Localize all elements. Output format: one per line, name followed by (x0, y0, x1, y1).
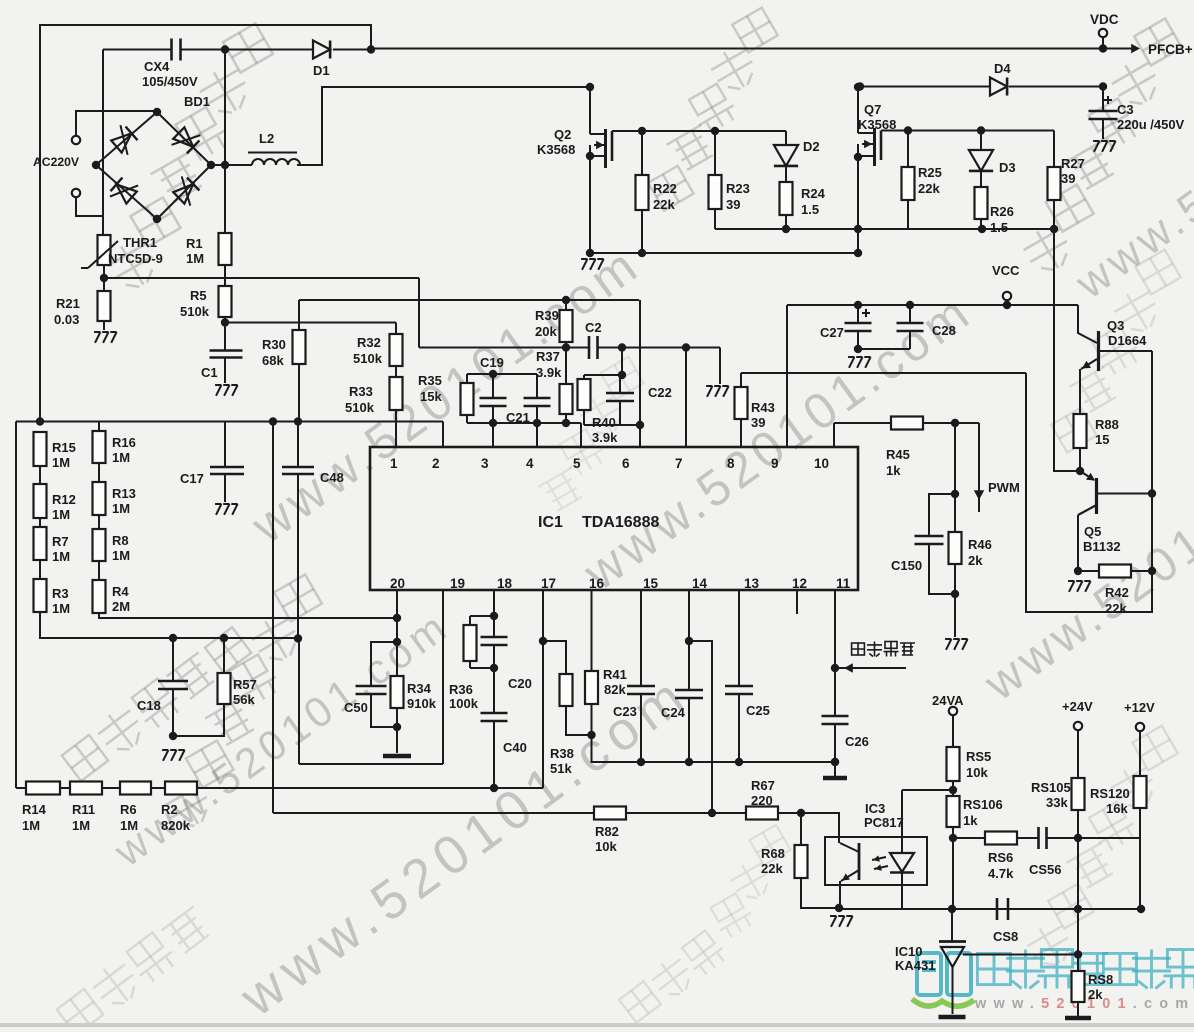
svg-text:2M: 2M (112, 599, 130, 614)
svg-text:IC10: IC10 (895, 944, 922, 959)
svg-text:R46: R46 (968, 537, 992, 552)
svg-text:39: 39 (726, 197, 740, 212)
svg-text:R7: R7 (52, 534, 69, 549)
svg-text:105/450V: 105/450V (142, 74, 198, 89)
svg-text:20k: 20k (535, 324, 557, 339)
svg-text:1k: 1k (963, 813, 978, 828)
svg-text:17: 17 (541, 576, 556, 591)
svg-text:R30: R30 (262, 337, 286, 352)
svg-text:R5: R5 (190, 288, 207, 303)
svg-text:R24: R24 (801, 186, 826, 201)
svg-text:1.5: 1.5 (990, 220, 1008, 235)
svg-text:R25: R25 (918, 165, 942, 180)
svg-text:R15: R15 (52, 440, 76, 455)
svg-text:R42: R42 (1105, 585, 1129, 600)
svg-text:R35: R35 (418, 373, 442, 388)
svg-text:2k: 2k (1088, 987, 1103, 1002)
svg-text:22k: 22k (918, 181, 940, 196)
svg-text:R27: R27 (1061, 156, 1085, 171)
svg-text:D1: D1 (313, 63, 330, 78)
svg-text:10k: 10k (966, 765, 988, 780)
svg-text:1M: 1M (52, 507, 70, 522)
svg-text:82k: 82k (604, 682, 626, 697)
svg-text:CS56: CS56 (1029, 862, 1062, 877)
svg-text:AC220V: AC220V (33, 155, 80, 169)
svg-text:1M: 1M (72, 818, 90, 833)
svg-text:IC1: IC1 (538, 514, 563, 531)
svg-text:R14: R14 (22, 802, 47, 817)
svg-text:R82: R82 (595, 824, 619, 839)
svg-text:15: 15 (1095, 432, 1109, 447)
svg-text:16k: 16k (1106, 801, 1128, 816)
svg-text:C48: C48 (320, 470, 344, 485)
svg-text:1.5: 1.5 (801, 202, 819, 217)
svg-text:R39: R39 (535, 308, 559, 323)
svg-text:20: 20 (390, 576, 405, 591)
svg-text:VDC: VDC (1090, 12, 1119, 27)
svg-text:510k: 510k (345, 400, 375, 415)
svg-text:R67: R67 (751, 778, 775, 793)
svg-text:C25: C25 (746, 703, 770, 718)
svg-text:C40: C40 (503, 740, 527, 755)
svg-text:C27: C27 (820, 325, 844, 340)
svg-text:R22: R22 (653, 181, 677, 196)
svg-text:R26: R26 (990, 204, 1014, 219)
svg-text:R38: R38 (550, 746, 574, 761)
svg-text:C17: C17 (180, 471, 204, 486)
svg-text:RS120: RS120 (1090, 786, 1130, 801)
svg-text:R6: R6 (120, 802, 137, 817)
svg-text:R21: R21 (56, 296, 80, 311)
svg-text:R11: R11 (72, 802, 95, 817)
svg-text:5: 5 (573, 456, 581, 471)
svg-text:Q2: Q2 (554, 127, 571, 142)
svg-text:K3568: K3568 (537, 142, 575, 157)
svg-text:1M: 1M (120, 818, 138, 833)
svg-text:CS8: CS8 (993, 929, 1018, 944)
svg-text:4: 4 (526, 456, 534, 471)
svg-text:3.9k: 3.9k (592, 430, 618, 445)
svg-text:R37: R37 (536, 349, 560, 364)
svg-text:R3: R3 (52, 586, 69, 601)
svg-text:9: 9 (771, 456, 779, 471)
svg-text:13: 13 (744, 576, 760, 591)
svg-text:PC817: PC817 (864, 815, 904, 830)
svg-text:22k: 22k (761, 861, 783, 876)
svg-text:16: 16 (589, 576, 605, 591)
svg-text:+12V: +12V (1124, 700, 1155, 715)
svg-text:100k: 100k (449, 696, 479, 711)
svg-text:8: 8 (727, 456, 735, 471)
svg-text:PWM: PWM (988, 480, 1020, 495)
svg-text:3.9k: 3.9k (536, 365, 562, 380)
svg-text:Q3: Q3 (1107, 318, 1124, 333)
svg-text:R43: R43 (751, 400, 775, 415)
svg-text:C28: C28 (932, 323, 956, 338)
svg-text:1M: 1M (52, 455, 70, 470)
svg-text:3: 3 (481, 456, 489, 471)
svg-text:C150: C150 (891, 558, 922, 573)
svg-text:2k: 2k (968, 553, 983, 568)
svg-text:0.03: 0.03 (54, 312, 79, 327)
svg-text:PFCB+: PFCB+ (1148, 42, 1193, 57)
svg-text:10k: 10k (595, 839, 617, 854)
svg-text:KA431: KA431 (895, 958, 935, 973)
svg-text:220: 220 (751, 793, 773, 808)
svg-text:TDA16888: TDA16888 (582, 514, 659, 531)
svg-text:19: 19 (450, 576, 465, 591)
svg-text:RS8: RS8 (1088, 972, 1113, 987)
svg-text:C24: C24 (661, 705, 686, 720)
svg-text:D2: D2 (803, 139, 820, 154)
svg-text:D1664: D1664 (1108, 333, 1147, 348)
svg-text:10: 10 (814, 456, 829, 471)
svg-text:15k: 15k (420, 389, 442, 404)
svg-text:D4: D4 (994, 61, 1011, 76)
svg-text:IC3: IC3 (865, 801, 885, 816)
svg-text:RS6: RS6 (988, 850, 1013, 865)
svg-text:BD1: BD1 (184, 94, 210, 109)
svg-text:220u /450V: 220u /450V (1117, 117, 1185, 132)
svg-text:C1: C1 (201, 365, 218, 380)
svg-text:1M: 1M (22, 818, 40, 833)
svg-text:1: 1 (390, 456, 398, 471)
svg-text:R68: R68 (761, 846, 785, 861)
svg-text:C3: C3 (1117, 102, 1134, 117)
svg-text:C20: C20 (508, 676, 532, 691)
svg-text:68k: 68k (262, 353, 284, 368)
svg-text:NTC5D-9: NTC5D-9 (108, 251, 163, 266)
svg-text:K3568: K3568 (858, 117, 896, 132)
svg-text:R32: R32 (357, 335, 381, 350)
svg-text:820k: 820k (161, 818, 191, 833)
svg-text:56k: 56k (233, 692, 255, 707)
svg-text:R45: R45 (886, 447, 910, 462)
svg-text:RS105: RS105 (1031, 780, 1071, 795)
svg-text:39: 39 (1061, 171, 1075, 186)
svg-text:RS106: RS106 (963, 797, 1003, 812)
svg-text:Q5: Q5 (1084, 524, 1101, 539)
svg-text:24VA: 24VA (932, 693, 964, 708)
svg-text:B1132: B1132 (1083, 539, 1121, 554)
svg-text:22k: 22k (653, 197, 675, 212)
svg-text:510k: 510k (353, 351, 383, 366)
svg-text:L2: L2 (259, 131, 274, 146)
svg-text:R16: R16 (112, 435, 136, 450)
svg-text:22k: 22k (1105, 601, 1127, 616)
svg-text:11: 11 (836, 576, 851, 591)
svg-text:R4: R4 (112, 584, 129, 599)
svg-text:R13: R13 (112, 486, 136, 501)
svg-text:18: 18 (497, 576, 513, 591)
svg-text:1M: 1M (186, 251, 204, 266)
svg-text:510k: 510k (180, 304, 210, 319)
svg-text:R57: R57 (233, 677, 257, 692)
svg-text:39: 39 (751, 415, 765, 430)
svg-text:1M: 1M (112, 548, 130, 563)
svg-text:910k: 910k (407, 696, 437, 711)
svg-text:R88: R88 (1095, 417, 1119, 432)
svg-text:1M: 1M (52, 601, 70, 616)
svg-text:15: 15 (643, 576, 659, 591)
svg-text:C21: C21 (506, 410, 530, 425)
svg-text:1M: 1M (112, 501, 130, 516)
svg-text:1M: 1M (52, 549, 70, 564)
svg-text:C26: C26 (845, 734, 869, 749)
svg-text:R8: R8 (112, 533, 129, 548)
svg-text:12: 12 (792, 576, 807, 591)
svg-text:4.7k: 4.7k (988, 866, 1014, 881)
svg-text:R12: R12 (52, 492, 76, 507)
svg-text:THR1: THR1 (123, 235, 157, 250)
svg-text:R40: R40 (592, 415, 616, 430)
svg-text:D3: D3 (999, 160, 1016, 175)
svg-text:+24V: +24V (1062, 699, 1093, 714)
svg-text:C50: C50 (344, 700, 368, 715)
svg-text:R33: R33 (349, 384, 373, 399)
svg-text:C23: C23 (613, 704, 637, 719)
svg-text:R23: R23 (726, 181, 750, 196)
svg-text:C19: C19 (480, 355, 504, 370)
svg-text:RS5: RS5 (966, 749, 991, 764)
svg-text:51k: 51k (550, 761, 572, 776)
svg-text:R34: R34 (407, 681, 432, 696)
svg-text:C2: C2 (585, 320, 602, 335)
svg-text:R1: R1 (186, 236, 203, 251)
svg-text:R2: R2 (161, 802, 178, 817)
svg-text:1k: 1k (886, 463, 901, 478)
svg-text:Q7: Q7 (864, 102, 881, 117)
svg-text:R36: R36 (449, 682, 473, 697)
svg-text:C22: C22 (648, 385, 672, 400)
svg-text:14: 14 (692, 576, 708, 591)
svg-text:R41: R41 (603, 667, 627, 682)
svg-text:C18: C18 (137, 698, 161, 713)
svg-text:7: 7 (675, 456, 683, 471)
svg-text:33k: 33k (1046, 795, 1068, 810)
svg-text:CX4: CX4 (144, 59, 170, 74)
svg-text:2: 2 (432, 456, 440, 471)
svg-text:6: 6 (622, 456, 630, 471)
svg-text:1M: 1M (112, 450, 130, 465)
svg-text:VCC: VCC (992, 263, 1020, 278)
